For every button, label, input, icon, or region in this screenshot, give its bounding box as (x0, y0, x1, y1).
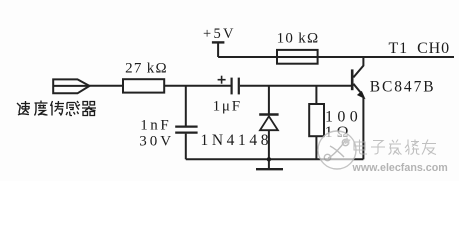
svg-text:1nF: 1nF (140, 118, 171, 134)
svg-text:1μF: 1μF (213, 99, 242, 115)
svg-text:+5V: +5V (203, 26, 236, 42)
svg-text:10 kΩ: 10 kΩ (277, 31, 320, 47)
svg-text:27 kΩ: 27 kΩ (125, 61, 168, 77)
svg-text:BC847B: BC847B (370, 79, 436, 96)
svg-text:100: 100 (325, 108, 362, 125)
svg-text:T1 CH0: T1 CH0 (389, 40, 451, 57)
svg-text:30V: 30V (139, 133, 174, 149)
svg-text:www.elecfans.com: www.elecfans.com (352, 162, 448, 174)
svg-text:1N4148: 1N4148 (201, 132, 273, 149)
